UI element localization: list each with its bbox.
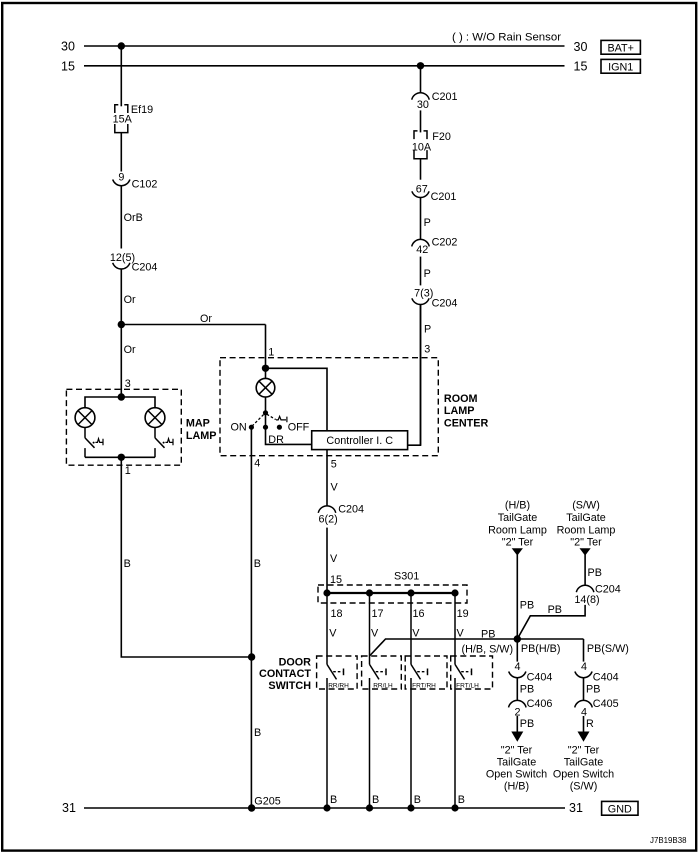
svg-text:RR/RH: RR/RH [328,683,349,690]
svg-text:V: V [330,553,338,565]
svg-text:9: 9 [118,171,124,183]
svg-text:Room Lamp: Room Lamp [488,524,547,536]
svg-text:CENTER: CENTER [444,417,489,429]
svg-text:C201: C201 [432,91,458,103]
svg-text:Room Lamp: Room Lamp [557,524,616,536]
svg-text:V: V [329,628,337,640]
svg-text:19: 19 [457,608,469,620]
svg-text:5: 5 [331,459,337,471]
svg-text:V: V [371,628,379,640]
svg-text:FRT/LH: FRT/LH [456,683,479,690]
svg-text:B: B [414,794,421,806]
svg-text:(H/B): (H/B) [504,781,529,793]
svg-text:B: B [254,558,261,570]
svg-text:30: 30 [574,40,588,54]
svg-text:B: B [330,794,337,806]
svg-text:6(2): 6(2) [319,514,338,526]
svg-text:P: P [424,323,431,335]
svg-text:F20: F20 [432,131,451,143]
svg-text:C204: C204 [432,297,458,309]
svg-text:(H/B, S/W): (H/B, S/W) [462,644,514,656]
svg-text:C201: C201 [431,191,457,203]
svg-text:16: 16 [413,608,425,620]
svg-text:C405: C405 [593,698,619,710]
svg-text:FRT/RH: FRT/RH [412,683,436,690]
svg-text:15A: 15A [113,114,133,126]
svg-text:"2" Ter: "2" Ter [502,537,534,549]
svg-text:Or: Or [200,313,212,325]
svg-text:B: B [254,727,261,739]
svg-text:B: B [372,794,379,806]
svg-text:C404: C404 [593,672,619,684]
svg-text:7(3): 7(3) [414,287,433,299]
svg-text:10A: 10A [412,142,432,154]
svg-text:ROOM: ROOM [444,393,478,405]
svg-text:Open Switch: Open Switch [486,769,547,781]
svg-text:MAP: MAP [186,418,210,430]
svg-text:OFF: OFF [288,422,310,434]
svg-text:S301: S301 [394,571,419,583]
svg-text:67: 67 [416,183,428,195]
svg-text:"2" Ter: "2" Ter [501,744,533,756]
svg-text:Controller I. C: Controller I. C [326,435,393,447]
svg-text:31: 31 [569,801,583,815]
svg-text:4: 4 [515,661,521,673]
svg-text:CONTACT: CONTACT [259,668,311,680]
svg-text:V: V [331,481,339,493]
svg-text:DOOR: DOOR [279,656,312,668]
svg-text:Or: Or [124,294,136,306]
svg-text:GND: GND [608,804,632,816]
svg-text:(H/B): (H/B) [505,499,530,511]
svg-text:B: B [124,558,131,570]
svg-text:V: V [412,628,420,640]
svg-text:PB: PB [481,629,495,641]
svg-text:V: V [457,628,465,640]
svg-text:TailGate: TailGate [498,512,538,524]
svg-text:TailGate: TailGate [566,512,606,524]
svg-text:P: P [424,268,431,280]
svg-text:PB: PB [586,684,600,696]
svg-text:( ) : W/O Rain Sensor: ( ) : W/O Rain Sensor [452,32,561,44]
svg-text:31: 31 [62,801,76,815]
svg-text:30: 30 [61,39,75,53]
svg-text:LAMP: LAMP [444,405,475,417]
svg-text:TailGate: TailGate [564,756,604,768]
svg-text:C102: C102 [132,179,158,191]
svg-text:IGN1: IGN1 [608,62,633,74]
svg-text:PB: PB [548,604,562,616]
svg-text:1: 1 [268,347,274,359]
svg-text:"2" Ter: "2" Ter [568,744,600,756]
svg-text:PB(S/W): PB(S/W) [587,643,629,655]
svg-text:PB: PB [588,567,602,579]
svg-text:(S/W): (S/W) [572,499,600,511]
svg-text:3: 3 [424,343,430,355]
svg-text:PB: PB [520,718,534,730]
svg-text:4: 4 [254,458,260,470]
svg-text:3: 3 [125,378,131,390]
svg-text:LAMP: LAMP [186,430,217,442]
svg-text:"2" Ter: "2" Ter [570,537,602,549]
svg-text:14(8): 14(8) [574,594,599,606]
svg-text:C204: C204 [132,262,158,274]
svg-text:PB: PB [520,684,534,696]
svg-text:(S/W): (S/W) [570,781,598,793]
svg-text:C404: C404 [527,672,553,684]
svg-text:RR/LH: RR/LH [373,683,393,690]
svg-text:15: 15 [574,60,588,74]
svg-text:P: P [424,217,431,229]
svg-text:C406: C406 [527,698,553,710]
svg-text:42: 42 [416,244,428,256]
svg-text:Ef19: Ef19 [131,104,153,116]
svg-text:PB: PB [520,600,534,612]
svg-text:C202: C202 [432,236,458,248]
svg-text:30: 30 [417,99,429,111]
svg-text:B: B [458,794,465,806]
svg-text:OrB: OrB [124,212,143,224]
svg-text:15: 15 [61,59,75,73]
svg-text:PB(H/B): PB(H/B) [521,643,561,655]
svg-text:BAT+: BAT+ [607,43,634,55]
svg-text:18: 18 [331,608,343,620]
svg-text:Open Switch: Open Switch [553,769,614,781]
svg-text:ON: ON [231,422,247,434]
svg-text:C204: C204 [338,504,364,516]
svg-text:4: 4 [581,661,587,673]
svg-text:1: 1 [125,465,131,477]
svg-text:Or: Or [124,344,136,356]
svg-text:SWITCH: SWITCH [268,680,311,692]
svg-text:R: R [586,718,594,730]
svg-text:J7B19B38: J7B19B38 [650,835,687,845]
svg-text:TailGate: TailGate [497,756,537,768]
svg-text:G205: G205 [254,796,280,808]
svg-text:17: 17 [372,608,384,620]
